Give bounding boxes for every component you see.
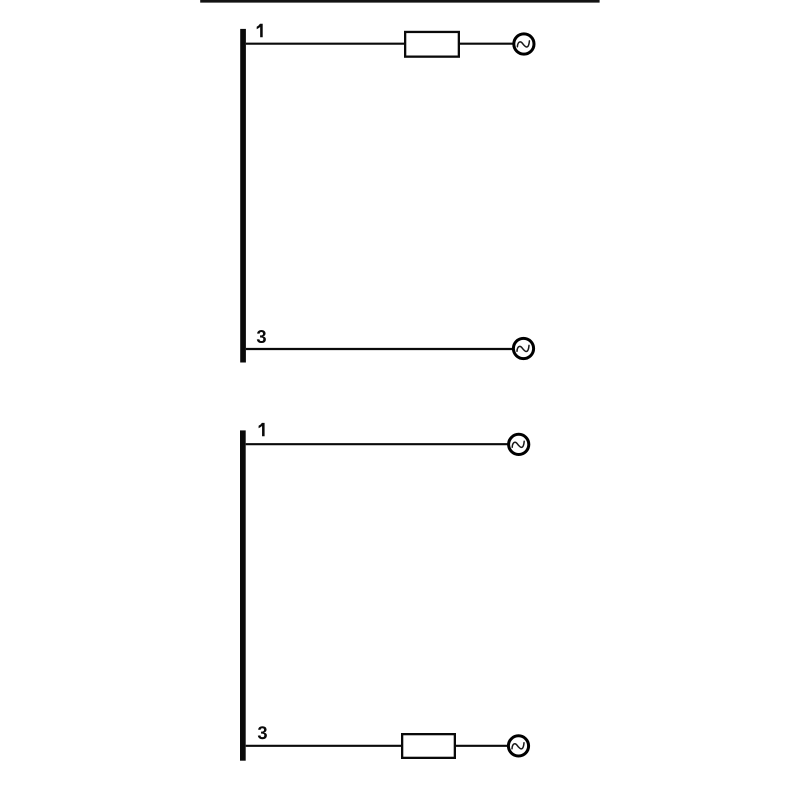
ac source G4 bbox=[508, 736, 528, 756]
node 3 label (bottom diagram) bbox=[258, 726, 267, 739]
wire branch 3 (bus to source G2) bbox=[246, 348, 513, 350]
bus B1 bbox=[240, 29, 246, 363]
ac source G1 bbox=[514, 34, 534, 54]
ac source G2 bbox=[513, 338, 533, 358]
wire impedance to source G4 bbox=[456, 745, 508, 747]
node 3 label (top diagram) bbox=[257, 330, 266, 343]
top rule bbox=[200, 0, 599, 3]
wire branch 3 (bus to impedance) bbox=[246, 745, 402, 747]
wire impedance to source G1 bbox=[460, 43, 513, 45]
wire branch 1 (bus to source G3) bbox=[246, 443, 508, 445]
impedance Z1 bbox=[405, 32, 459, 57]
wire branch 1 (bus to impedance) bbox=[246, 43, 405, 45]
node 1 label (top diagram) bbox=[257, 24, 263, 37]
node 1 label (bottom diagram) bbox=[259, 423, 265, 436]
impedance Z2 bbox=[402, 734, 455, 758]
ac source G3 bbox=[509, 434, 529, 454]
bus B2 bbox=[240, 430, 246, 760]
